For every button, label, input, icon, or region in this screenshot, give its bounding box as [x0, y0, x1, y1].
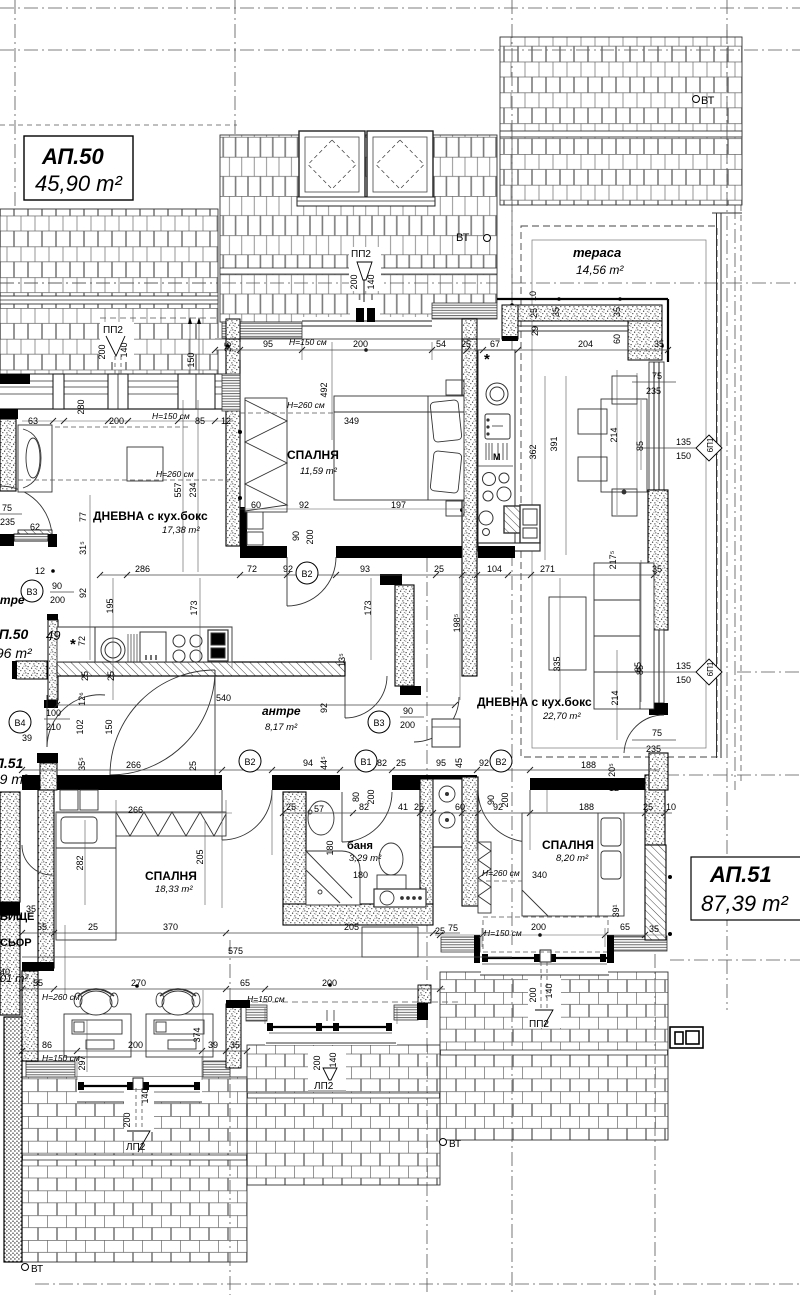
bath shower — [306, 851, 360, 905]
svg-text:188: 188 — [581, 760, 596, 770]
svg-text:60: 60 — [612, 334, 622, 344]
bedroom8 south wall — [483, 917, 608, 952]
svg-text:Н=150 см: Н=150 см — [152, 411, 190, 421]
funnel PP2 bedroom8 dormer — [528, 962, 561, 1030]
svg-text:557: 557 — [173, 482, 183, 497]
svg-text:492: 492 — [319, 382, 329, 397]
AP50 storage walls left edge — [0, 792, 20, 902]
roof brick block bottom-left — [22, 1077, 247, 1262]
svg-text:тераса: тераса — [573, 245, 621, 260]
svg-text:104: 104 — [487, 564, 502, 574]
bed bedroom18 — [56, 790, 116, 940]
svg-text:195: 195 — [105, 598, 115, 613]
svg-text:90: 90 — [403, 706, 413, 716]
window sill hatches bottom-left dormer — [26, 1061, 75, 1077]
shaft below bath — [362, 927, 418, 957]
roof dim line left block — [100, 317, 218, 374]
svg-text:87,39 m²: 87,39 m² — [701, 891, 788, 916]
bedroom18 door arc — [222, 790, 272, 840]
skylight sill band — [297, 197, 435, 206]
svg-text:25: 25 — [396, 758, 406, 768]
bedroom8 door arc — [478, 790, 530, 842]
funnel LP2 bottom-left — [122, 1088, 154, 1153]
dash-dot axis horizontal y=1284 bottom — [35, 1283, 800, 1285]
svg-text:25: 25 — [435, 926, 445, 936]
svg-text:85: 85 — [635, 441, 645, 451]
wall node dots — [51, 297, 672, 988]
svg-text:35: 35 — [223, 342, 233, 352]
svg-text:200: 200 — [128, 1040, 143, 1050]
dash-dot axis horizontal y=8 — [0, 7, 800, 9]
boiler shaft — [433, 779, 462, 847]
135/150 + diamond 6P1 lower — [635, 659, 722, 685]
svg-text:200: 200 — [50, 595, 65, 605]
bedroom8 west wall — [462, 777, 478, 906]
svg-text:235: 235 — [646, 386, 661, 396]
dash-dot axis vertical x=512 — [511, 0, 513, 1295]
svg-text:ЛП2: ЛП2 — [126, 1142, 146, 1153]
B4 circle — [9, 711, 31, 733]
svg-text:200: 200 — [97, 344, 107, 359]
svg-text:150: 150 — [676, 675, 691, 685]
svg-text:77: 77 — [78, 512, 88, 522]
svg-text:25: 25 — [80, 671, 90, 681]
svg-text:173: 173 — [363, 600, 373, 615]
dash-dot axis vertical x=15 — [14, 0, 16, 209]
svg-text:М: М — [493, 452, 501, 462]
svg-text:49: 49 — [46, 628, 60, 643]
svg-text:200: 200 — [366, 789, 376, 804]
svg-text:92: 92 — [319, 703, 329, 713]
svg-text:25: 25 — [461, 339, 471, 349]
svg-text:ВТ: ВТ — [449, 1139, 461, 1150]
svg-text:45: 45 — [454, 758, 464, 768]
funnel PP2 top-left roof — [97, 322, 134, 374]
svg-text:АП.51: АП.51 — [0, 755, 24, 771]
svg-text:75: 75 — [652, 728, 662, 738]
svg-text:197: 197 — [391, 500, 406, 510]
dash-dot axis vertical x=727 — [726, 0, 728, 1010]
svg-text:100: 100 — [46, 708, 61, 718]
svg-text:90: 90 — [52, 581, 62, 591]
svg-text:,39 m²: ,39 m² — [0, 771, 29, 787]
svg-text:ПП2: ПП2 — [529, 1019, 549, 1030]
svg-text:Н=150 см: Н=150 см — [42, 1053, 80, 1063]
svg-text:349: 349 — [344, 416, 359, 426]
wardrobe bedroom18 — [116, 812, 226, 836]
svg-text:*: * — [484, 351, 490, 368]
svg-text:86: 86 — [42, 1040, 52, 1050]
svg-text:АП.50: АП.50 — [41, 144, 105, 169]
svg-text:39¹: 39¹ — [611, 904, 621, 917]
roof brick block bottom-middle — [247, 1045, 440, 1185]
svg-text:150: 150 — [676, 451, 691, 461]
grid overlay over roofs — [0, 30, 727, 330]
svg-text:204: 204 — [578, 339, 593, 349]
svg-text:29: 29 — [530, 326, 540, 336]
bath west wall — [283, 792, 306, 909]
svg-text:67: 67 — [490, 339, 500, 349]
dashed eave line bottom — [232, 1001, 460, 1003]
svg-text:В2: В2 — [495, 757, 506, 767]
kitchen51 counter — [478, 350, 540, 551]
skylight right — [367, 131, 433, 198]
terrace railing — [716, 213, 718, 758]
party wall AP50/AP51 — [462, 339, 477, 676]
bedroom50 niche shelves — [240, 507, 263, 546]
svg-text:39: 39 — [208, 1040, 218, 1050]
skylight left — [299, 131, 365, 198]
bath east wall — [420, 779, 433, 904]
dormer window bottom-middle — [265, 1010, 397, 1045]
svg-text:Н=150 см: Н=150 см — [289, 337, 327, 347]
svg-text:72: 72 — [77, 636, 87, 646]
svg-text:210: 210 — [46, 722, 61, 732]
svg-text:40: 40 — [0, 967, 10, 977]
75/235 fraction right top — [632, 371, 676, 396]
svg-text:антре: антре — [262, 704, 301, 718]
living50 band end cap — [0, 374, 30, 384]
dash-dot axis vertical x=735 — [734, 205, 736, 790]
svg-text:140: 140 — [119, 342, 129, 357]
bath door arc — [342, 792, 392, 842]
svg-text:ПП2: ПП2 — [103, 325, 123, 336]
svg-text:94: 94 — [303, 758, 313, 768]
VT marker bottom-middle — [440, 1139, 462, 1151]
svg-text:297: 297 — [77, 1055, 87, 1070]
bed bedroom8 — [522, 813, 624, 916]
bedroom50 door arc — [287, 557, 336, 606]
svg-text:ЛП2: ЛП2 — [314, 1081, 334, 1092]
svg-text:35: 35 — [551, 307, 561, 317]
desk1 with chair — [64, 989, 131, 1057]
terrace door arc — [624, 715, 664, 753]
kitchen50 counter — [57, 627, 232, 662]
svg-text:140: 140 — [544, 983, 554, 998]
svg-text:25: 25 — [286, 802, 296, 812]
svg-text:12: 12 — [221, 416, 231, 426]
living50 north window band — [0, 374, 240, 411]
storage door arc — [22, 845, 52, 875]
svg-text:АП.50: АП.50 — [0, 626, 29, 642]
svg-text:282: 282 — [75, 855, 85, 870]
dim ticks — [19, 572, 668, 1054]
roof brick block top-right — [500, 37, 742, 205]
svg-text:10: 10 — [528, 291, 538, 301]
svg-text:391: 391 — [549, 436, 559, 451]
svg-text:214: 214 — [610, 690, 620, 705]
svg-text:Н=260 см: Н=260 см — [482, 868, 520, 878]
bed bedroom50 — [334, 380, 464, 516]
svg-text:335: 335 — [552, 656, 562, 671]
svg-text:62: 62 — [30, 522, 40, 532]
tv cabinet living50 — [127, 447, 163, 481]
svg-text:ВТ: ВТ — [31, 1264, 43, 1275]
bedroom18 west wall — [37, 753, 58, 763]
svg-text:22,70 m²: 22,70 m² — [542, 711, 581, 722]
svg-text:антре: антре — [0, 593, 25, 607]
svg-text:200: 200 — [305, 529, 315, 544]
svg-text:СПАЛНЯ: СПАЛНЯ — [287, 448, 339, 462]
dash-dot ridge line terrace y=283 — [512, 282, 800, 284]
svg-text:Н=260 см: Н=260 см — [287, 400, 325, 410]
svg-text:340: 340 — [532, 870, 547, 880]
dash-dot axis vertical x=230 bottom — [229, 940, 231, 1295]
bedroom50 south wall — [240, 546, 287, 558]
svg-text:200: 200 — [500, 792, 510, 807]
svg-text:200: 200 — [531, 922, 546, 932]
svg-text:54: 54 — [436, 339, 446, 349]
svg-text:14,56 m²: 14,56 m² — [576, 263, 624, 277]
svg-text:180: 180 — [325, 840, 335, 855]
main dim row y575 — [100, 572, 660, 578]
svg-text:44⁵: 44⁵ — [319, 756, 329, 770]
svg-text:СПАЛНЯ: СПАЛНЯ — [542, 838, 594, 852]
svg-text:200: 200 — [528, 987, 538, 1002]
svg-text:35: 35 — [654, 339, 664, 349]
terrace-side north wall of AP51 — [497, 299, 668, 362]
dining table — [578, 376, 647, 516]
svg-text:35: 35 — [230, 1040, 240, 1050]
svg-text:92: 92 — [78, 588, 88, 598]
roof window symbol right — [670, 1027, 703, 1048]
svg-text:205: 205 — [195, 849, 205, 864]
dash-dot axis vertical x=235 — [234, 0, 236, 137]
svg-text:10: 10 — [666, 802, 676, 812]
svg-text:200: 200 — [312, 1055, 322, 1070]
svg-text:55: 55 — [33, 978, 43, 988]
living50 balcony door arc — [0, 486, 52, 538]
dashed roof overhang vertical x=741 — [740, 205, 742, 785]
svg-text:СЬОР: СЬОР — [0, 937, 32, 949]
entry door arc left — [47, 695, 105, 747]
svg-text:92: 92 — [283, 564, 293, 574]
AP51 east wall: windows and piers — [648, 362, 668, 790]
svg-text:135: 135 — [676, 661, 691, 671]
svg-text:370: 370 — [163, 922, 178, 932]
svg-text:217⁵: 217⁵ — [608, 550, 618, 569]
section-cut stipple strip far left bottom — [4, 1017, 22, 1262]
svg-text:6П1: 6П1 — [706, 437, 715, 452]
B3 door fraction hall50 — [368, 711, 390, 733]
svg-text:ДНЕВНА с кух.бокс: ДНЕВНА с кух.бокс — [93, 509, 208, 523]
funnel PP2 top-center — [349, 247, 381, 302]
svg-text:Н=260 см: Н=260 см — [42, 992, 80, 1002]
B3 entry circle — [21, 580, 43, 602]
svg-text:270: 270 — [131, 978, 146, 988]
svg-text:540: 540 — [216, 693, 231, 703]
svg-text:25: 25 — [88, 922, 98, 932]
svg-text:85: 85 — [633, 662, 643, 672]
svg-text:*: * — [70, 636, 76, 653]
svg-text:В4: В4 — [14, 718, 25, 728]
dash-dot axis horizontal y=50 — [0, 49, 800, 51]
AP50 label box — [24, 136, 133, 200]
svg-text:35: 35 — [612, 307, 622, 317]
svg-text:85: 85 — [195, 416, 205, 426]
entry double door arcs AP51 — [110, 670, 215, 775]
living50 left wall lower bar — [0, 534, 14, 546]
kitchen51 south cap — [478, 546, 515, 558]
svg-text:3,29 m²: 3,29 m² — [349, 853, 382, 864]
sofa living50 — [18, 425, 52, 492]
svg-text:25: 25 — [106, 671, 116, 681]
135/150 + diamond 6P1 upper — [635, 435, 722, 461]
svg-text:В1: В1 — [360, 757, 371, 767]
svg-text:65: 65 — [240, 978, 250, 988]
hatched wall south of living50 — [57, 574, 421, 695]
svg-text:200: 200 — [349, 274, 359, 289]
terrace dashed boundary — [521, 213, 742, 758]
sofa living51 — [594, 563, 654, 709]
bath washer — [374, 889, 426, 907]
svg-text:60: 60 — [455, 802, 465, 812]
svg-text:200: 200 — [400, 720, 415, 730]
dormer window bottom-left — [77, 1077, 202, 1102]
svg-text:200: 200 — [353, 339, 368, 349]
svg-text:баня: баня — [347, 840, 373, 852]
svg-text:41: 41 — [398, 802, 408, 812]
svg-text:235: 235 — [0, 517, 15, 527]
svg-text:В3: В3 — [373, 718, 384, 728]
dash-dot axis horizontal y=960 right — [670, 959, 800, 961]
svg-text:200: 200 — [109, 416, 124, 426]
svg-text:280: 280 — [76, 399, 86, 414]
svg-text:В2: В2 — [301, 569, 312, 579]
stipple pier left of middle dormer — [226, 1004, 241, 1068]
svg-text:82: 82 — [377, 758, 387, 768]
door arc corridor51 — [414, 697, 459, 742]
dormer window bedroom8 — [480, 945, 609, 975]
svg-text:45,90 m²: 45,90 m² — [35, 171, 122, 196]
svg-text:266: 266 — [126, 760, 141, 770]
svg-text:135: 135 — [676, 437, 691, 447]
dash-dot axis vertical x=655 bottom — [654, 930, 656, 1295]
svg-text:180: 180 — [353, 870, 368, 880]
svg-text:ВТ: ВТ — [456, 232, 470, 244]
svg-text:25: 25 — [188, 761, 198, 771]
svg-text:188: 188 — [579, 802, 594, 812]
svg-text:63: 63 — [28, 416, 38, 426]
svg-text:90: 90 — [486, 795, 496, 805]
svg-text:374: 374 — [192, 1027, 202, 1042]
bedroom50 left wall — [226, 339, 240, 546]
svg-text:25: 25 — [76, 777, 86, 787]
svg-text:12: 12 — [35, 566, 45, 576]
bedroom50 north window band — [215, 300, 500, 350]
svg-text:234: 234 — [188, 482, 198, 497]
svg-text:362: 362 — [528, 444, 538, 459]
svg-text:8,17 m²: 8,17 m² — [265, 722, 298, 733]
VT marker bottom-left — [22, 1264, 44, 1276]
corridor dim row y770 — [22, 769, 660, 771]
svg-text:,96 m²: ,96 m² — [0, 645, 33, 661]
closet bedroom8 — [478, 842, 491, 913]
svg-text:214: 214 — [609, 427, 619, 442]
svg-text:271: 271 — [540, 564, 555, 574]
svg-text:35⁵: 35⁵ — [77, 757, 87, 771]
svg-text:200: 200 — [122, 1112, 132, 1127]
svg-text:75: 75 — [448, 923, 458, 933]
VT marker top-right — [693, 95, 715, 107]
desk2 with chair — [146, 989, 213, 1057]
svg-text:25: 25 — [434, 564, 444, 574]
svg-text:ДНЕВНА с кух.бокс: ДНЕВНА с кух.бокс — [477, 695, 592, 709]
bedroom18 lower dim rows — [22, 989, 445, 1051]
svg-text:235: 235 — [646, 744, 661, 754]
svg-text:286: 286 — [135, 564, 150, 574]
svg-text:140: 140 — [328, 1052, 338, 1067]
coffee table living51 — [549, 597, 586, 670]
svg-text:92: 92 — [299, 500, 309, 510]
svg-text:150: 150 — [104, 719, 114, 734]
svg-text:АП.51: АП.51 — [709, 862, 772, 887]
svg-text:12⁶: 12⁶ — [77, 692, 87, 706]
svg-text:6П1: 6П1 — [706, 661, 715, 676]
svg-text:90: 90 — [291, 531, 301, 541]
svg-text:140: 140 — [140, 1088, 150, 1103]
svg-text:200: 200 — [322, 978, 337, 988]
dash-dot axis vertical x=427 bottom — [426, 558, 428, 1295]
svg-text:8,20 m²: 8,20 m² — [556, 853, 589, 864]
svg-text:В2: В2 — [244, 757, 255, 767]
dash-dot axis horizontal right y=672 — [737, 671, 800, 673]
bath dim row y813 — [283, 812, 672, 814]
living50 left wall upper — [0, 409, 18, 419]
svg-text:173: 173 — [189, 600, 199, 615]
svg-text:65: 65 — [620, 922, 630, 932]
svg-text:150: 150 — [186, 352, 196, 367]
svg-text:266: 266 — [128, 805, 143, 815]
svg-text:75: 75 — [652, 371, 662, 381]
svg-text:35: 35 — [649, 924, 659, 934]
dash-dot axis horizontal y=775 right — [665, 774, 800, 776]
svg-text:Н=260 см: Н=260 см — [156, 469, 194, 479]
roof brick block top-center — [220, 135, 497, 322]
svg-text:95: 95 — [263, 339, 273, 349]
wardrobe bedroom50 — [245, 398, 287, 512]
svg-text:95: 95 — [436, 758, 446, 768]
svg-text:198⁵: 198⁵ — [452, 613, 462, 632]
svg-text:12: 12 — [609, 783, 619, 793]
75/235 fraction right bottom — [632, 728, 676, 754]
svg-text:25: 25 — [529, 308, 539, 318]
svg-text:72: 72 — [247, 564, 257, 574]
bath sink — [308, 801, 334, 835]
AP51 label box — [691, 857, 800, 920]
door arc hall50 — [345, 676, 387, 718]
svg-text:57: 57 — [314, 804, 324, 814]
svg-text:60: 60 — [251, 500, 261, 510]
svg-text:575: 575 — [228, 946, 243, 956]
corridor south wall H2 — [22, 775, 645, 790]
svg-text:25: 25 — [414, 802, 424, 812]
roof brick block bottom-right — [440, 972, 668, 1140]
svg-text:80: 80 — [351, 792, 361, 802]
svg-text:31⁵: 31⁵ — [78, 541, 88, 555]
svg-text:СПАЛНЯ: СПАЛНЯ — [145, 869, 197, 883]
svg-text:93: 93 — [360, 564, 370, 574]
kitchen50 west wall — [47, 614, 58, 620]
svg-text:Н=150 см: Н=150 см — [484, 928, 522, 938]
svg-text:ПП2: ПП2 — [351, 249, 371, 260]
svg-text:ВТ: ВТ — [701, 95, 715, 107]
bath toilet — [377, 843, 406, 889]
VT marker terrace — [456, 232, 491, 244]
svg-text:В3: В3 — [26, 587, 37, 597]
svg-text:35: 35 — [652, 564, 662, 574]
svg-text:102: 102 — [75, 719, 85, 734]
